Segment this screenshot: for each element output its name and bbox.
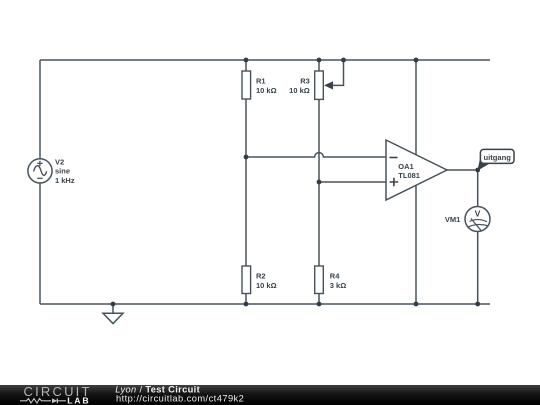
node R2 bottom <box>244 302 249 307</box>
wire top rail <box>40 59 490 61</box>
footer logo symbol <box>20 398 66 403</box>
wire mid vertical rail <box>415 60 417 304</box>
node R3 top <box>317 58 322 63</box>
node wiper top <box>341 58 346 63</box>
svg-text:R4: R4 <box>330 272 340 281</box>
voltage source V2 <box>28 159 52 183</box>
wire voltmeter top lead <box>477 170 479 207</box>
wire left rail upper <box>39 60 41 159</box>
label R1 10 kΩ <box>256 77 277 95</box>
wire R1 top lead <box>245 60 247 71</box>
wire voltmeter bottom lead <box>477 231 479 304</box>
node inverting junction <box>244 155 249 160</box>
svg-text:VM1: VM1 <box>445 215 460 224</box>
label R2 10 kΩ <box>256 272 277 290</box>
node mid rail top <box>414 58 419 63</box>
svg-text:R1: R1 <box>256 77 266 86</box>
wire R2 bottom lead <box>245 294 247 305</box>
op-amp OA1 <box>386 140 447 200</box>
wire non-inverting input <box>319 181 386 183</box>
resistor R2 <box>242 266 251 294</box>
footer bar <box>0 385 540 405</box>
wire R3 top lead <box>318 60 320 71</box>
label V2 sine 1 kHz <box>55 157 75 184</box>
svg-text:V: V <box>475 208 481 218</box>
svg-text:V2: V2 <box>55 157 64 166</box>
svg-text:http://circuitlab.com/ct479k2: http://circuitlab.com/ct479k2 <box>116 393 244 403</box>
svg-text:LAB: LAB <box>67 396 90 405</box>
node output <box>475 168 480 173</box>
node non-inverting junction <box>317 180 322 185</box>
svg-text:OA1: OA1 <box>398 162 413 171</box>
svg-text:uitgang: uitgang <box>483 153 511 162</box>
flag uitgang <box>477 149 514 171</box>
wire R3 wiper connection <box>333 60 344 85</box>
label R3 10 kΩ <box>289 77 310 95</box>
wire R4 bottom lead <box>318 294 320 305</box>
node ground <box>111 302 116 307</box>
wire bottom rail <box>40 303 490 305</box>
node voltmeter bottom <box>475 302 480 307</box>
wire R1-R2 column middle <box>245 99 247 266</box>
resistor R4 <box>315 266 324 294</box>
wire R3-R4 column middle <box>318 100 320 267</box>
potentiometer R3 <box>315 71 333 99</box>
svg-text:1 kHz: 1 kHz <box>55 176 75 185</box>
svg-text:10 kΩ: 10 kΩ <box>256 281 277 290</box>
resistor R1 <box>242 71 251 99</box>
wire inverting input with hop <box>246 153 386 157</box>
label R4 3 kΩ <box>330 272 346 290</box>
label OA1 TL081 <box>398 162 420 180</box>
svg-text:R3: R3 <box>300 77 310 86</box>
voltmeter VM1 <box>465 207 490 232</box>
ground <box>103 304 123 324</box>
svg-text:10 kΩ: 10 kΩ <box>289 86 310 95</box>
wire op-amp output <box>447 169 478 171</box>
svg-text:TL081: TL081 <box>398 171 420 180</box>
svg-text:10 kΩ: 10 kΩ <box>256 86 277 95</box>
node R4 bottom <box>317 302 322 307</box>
wire left rail lower <box>39 183 41 304</box>
svg-text:R2: R2 <box>256 272 266 281</box>
node mid rail bottom <box>414 302 419 307</box>
node R1 top <box>244 58 249 63</box>
svg-text:sine: sine <box>55 167 70 176</box>
svg-text:3 kΩ: 3 kΩ <box>330 281 346 290</box>
